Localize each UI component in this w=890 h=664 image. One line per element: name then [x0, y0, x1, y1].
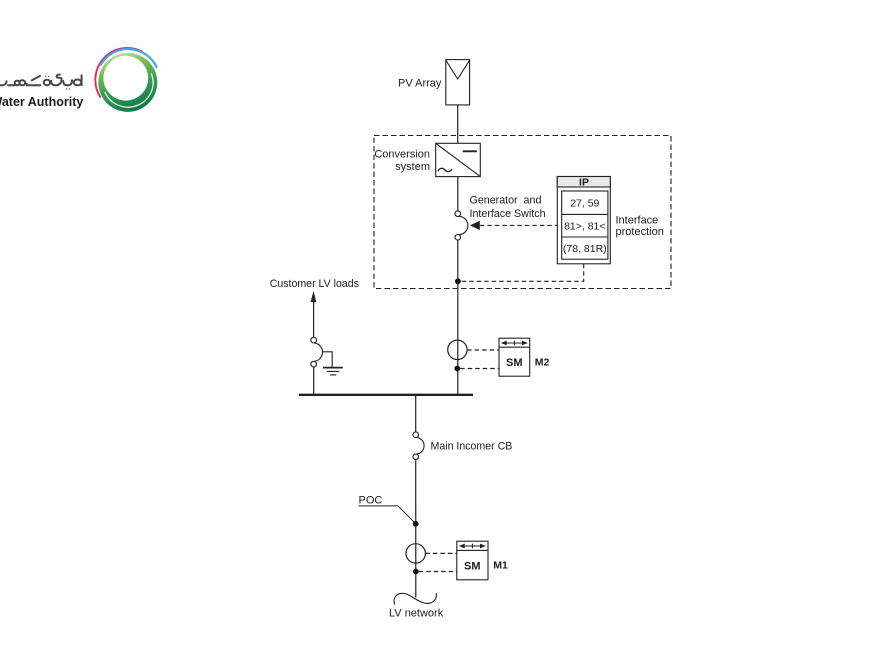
svg-text:Interface: Interface	[616, 215, 659, 227]
svg-text:M2: M2	[535, 356, 550, 368]
wire switch S2 to busbar	[313, 367, 315, 395]
svg-text:SM: SM	[464, 560, 481, 572]
meter M2 circle	[448, 340, 467, 359]
SM box M2 arrow glyph	[502, 341, 526, 346]
logo green ring	[98, 53, 157, 112]
wire CB to LV network	[415, 460, 417, 598]
meter M1 circle	[406, 544, 425, 563]
wire conversion to switch	[457, 177, 459, 212]
wire switch to busbar	[457, 240, 459, 395]
svg-text:M1: M1	[493, 560, 508, 572]
breaker CB main incomer	[413, 432, 424, 460]
svg-text:Customer LV loads: Customer LV loads	[270, 278, 359, 290]
svg-text:Main Incomer CB: Main Incomer CB	[431, 441, 513, 453]
conversion area dashed box	[374, 136, 671, 289]
dashed wire node to SM box	[460, 368, 499, 370]
ground	[323, 368, 343, 375]
svg-text:IP: IP	[579, 176, 589, 188]
switch S2 customer loads	[311, 337, 323, 367]
wire arrow to switch	[313, 300, 315, 337]
logo blue arc	[101, 49, 157, 67]
logo white highlight arc	[105, 73, 153, 107]
dashed wire arrow to IP box	[480, 224, 558, 226]
switch S1 generator and interface switch	[455, 211, 468, 240]
svg-text:81>, 81<: 81>, 81<	[564, 221, 605, 233]
svg-text:POC: POC	[359, 495, 383, 507]
inverter U1 conversion system	[436, 143, 481, 176]
arrow customer LV loads	[311, 291, 317, 302]
smart meter SM box M2	[499, 338, 530, 376]
dashed wire M1 circle to SM box	[425, 552, 456, 554]
svg-text:Conversion: Conversion	[374, 148, 430, 160]
svg-text:system: system	[395, 161, 430, 173]
svg-text:Interface Switch: Interface Switch	[470, 208, 546, 220]
LV network squiggle	[394, 593, 436, 604]
dashed wire node to SM box M1	[419, 571, 457, 573]
svg-text:SM: SM	[506, 357, 523, 369]
smart meter SM box M1	[457, 541, 488, 580]
PV array	[446, 60, 470, 105]
wire PV array to conversion system	[457, 105, 459, 144]
wire busbar to main incomer CB	[415, 396, 417, 432]
logo red arc	[95, 48, 141, 97]
svg-text:27, 59: 27, 59	[570, 198, 599, 210]
SM box M1 arrow glyph	[460, 544, 484, 549]
node below M1	[413, 569, 419, 575]
leader line POC	[359, 506, 415, 523]
arrow from IP to switch	[470, 221, 480, 230]
dashed wire M2 circle to SM box	[467, 349, 499, 351]
svg-text:Generator and: Generator and	[470, 194, 542, 206]
svg-text:PV Array: PV Array	[398, 78, 442, 90]
svg-text:protection: protection	[616, 226, 664, 238]
logo arabic text	[0, 75, 82, 90]
relay IP box	[557, 177, 610, 264]
node POC junction	[413, 521, 419, 527]
svg-text:LV network: LV network	[389, 608, 444, 620]
wire arc to ground	[323, 352, 332, 367]
svg-text:Water Authority: Water Authority	[0, 95, 83, 109]
svg-text:(78, 81R): (78, 81R)	[563, 243, 607, 255]
busbar	[299, 394, 473, 396]
dashed wire IP to node A	[461, 264, 584, 282]
node A junction	[455, 278, 461, 284]
node below M2	[454, 366, 460, 372]
